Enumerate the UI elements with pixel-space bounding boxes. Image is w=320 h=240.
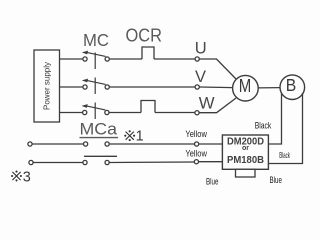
wire row B to module [199, 161, 223, 163]
svg-text:Black: Black [255, 121, 272, 132]
overload relay heater OCR-2 [141, 101, 155, 113]
auxiliary contact MCa terminals [84, 142, 110, 146]
rectifier module DM200D/PM180B [222, 135, 268, 169]
svg-text:B: B [286, 75, 297, 95]
wire terminal W to motor [200, 98, 237, 113]
svg-text:Yellow: Yellow [185, 129, 207, 139]
label MCa [80, 121, 119, 139]
wire S phase from power supply [60, 86, 83, 88]
svg-text:PM180B: PM180B [227, 155, 264, 166]
wire OCR-2 to terminal W [155, 112, 195, 114]
wire motor to brake [258, 87, 280, 89]
svg-text:Yellow: Yellow [185, 149, 207, 159]
svg-text:Power supply: Power supply [43, 62, 52, 110]
terminal node row A left [28, 142, 32, 146]
wire brake lead right [269, 93, 303, 164]
svg-text:W: W [199, 95, 215, 113]
svg-text:OCR: OCR [126, 24, 163, 45]
wire T phase from power supply [60, 112, 83, 114]
terminal node row B yellow [194, 160, 198, 164]
terminal U node [195, 57, 199, 61]
overload relay heater OCR-1 [142, 47, 154, 59]
wire row B left [33, 162, 82, 164]
wire OCR-1 to terminal U [154, 58, 195, 60]
label note 3 [11, 170, 31, 186]
svg-text:U: U [195, 40, 207, 58]
svg-text:3: 3 [23, 170, 31, 186]
terminal node row A yellow [195, 142, 199, 146]
wire terminal U to motor [200, 59, 237, 79]
label note 1 [124, 129, 143, 145]
wire row A to module [199, 143, 223, 145]
contactor main contact MC-3 [82, 104, 110, 115]
wire MC-3 to OCR-2 [109, 112, 141, 114]
svg-text:MCa: MCa [80, 121, 118, 139]
power supply box [34, 50, 60, 122]
wire terminal V to motor [200, 86, 234, 89]
brake B [280, 75, 305, 100]
limit switch contact terminals [83, 160, 109, 164]
contact bridge bar [84, 155, 117, 157]
contactor main contact MC-1 [82, 51, 109, 62]
wire row B right [110, 161, 195, 164]
svg-text:MC: MC [83, 30, 109, 50]
terminal node row B left [29, 160, 33, 164]
svg-text:1: 1 [136, 129, 144, 145]
svg-text:or: or [242, 145, 249, 152]
terminal V node [195, 85, 199, 89]
wire row A right [110, 143, 195, 145]
wire row A left [32, 143, 83, 145]
terminal W node [195, 111, 199, 115]
svg-text:Blue: Blue [270, 175, 283, 185]
mechanical linkage dashed line [94, 53, 96, 120]
wire MC-2 to terminal V [110, 86, 195, 88]
contactor main contact MC-2 [82, 79, 109, 90]
motor M [233, 75, 259, 101]
wire brake black lead left [269, 93, 282, 144]
wire MC-1 to OCR-1 [110, 58, 143, 60]
svg-text:M: M [239, 75, 252, 96]
svg-text:Blue: Blue [206, 177, 219, 187]
svg-text:V: V [195, 68, 206, 86]
svg-text:Black: Black [279, 150, 290, 160]
wire R phase from power supply [60, 58, 83, 60]
module bottom tab [236, 169, 256, 177]
